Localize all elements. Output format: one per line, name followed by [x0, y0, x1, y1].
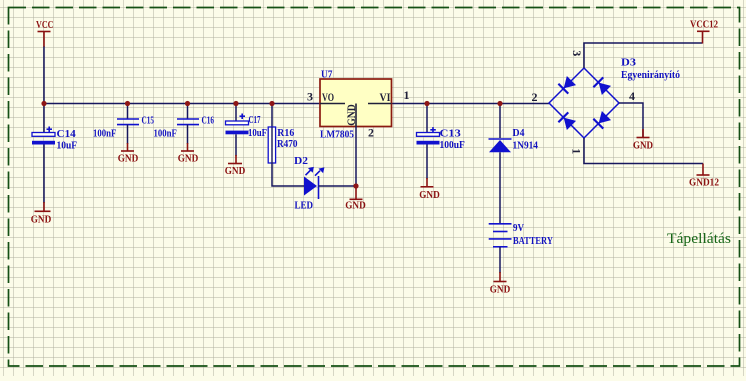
svg-text:C16: C16 — [202, 115, 215, 126]
svg-text:GND: GND — [31, 215, 52, 226]
junction C16 — [185, 101, 190, 106]
svg-text:2: 2 — [532, 90, 538, 104]
capacitor C15 100nF — [93, 104, 154, 145]
capacitor C16 100nF — [154, 104, 215, 145]
wire LED to GND junction — [319, 185, 357, 187]
svg-text:C13: C13 — [440, 128, 461, 139]
svg-text:1: 1 — [569, 148, 583, 154]
svg-text:Egyenirányító: Egyenirányító — [621, 70, 680, 81]
power port GND (C17) — [225, 155, 246, 177]
junction D4 — [497, 101, 502, 106]
capacitor C13 100uF — [417, 104, 465, 180]
svg-text:LED: LED — [295, 200, 314, 211]
power port GND (C13) — [419, 178, 440, 201]
svg-text:GND: GND — [178, 153, 199, 164]
power port GND (U7 pin 2) — [345, 187, 366, 212]
svg-text:VCC12: VCC12 — [690, 20, 718, 31]
power port GND (C14) — [31, 202, 52, 226]
capacitor C14 10uF — [32, 104, 77, 204]
svg-text:D4: D4 — [513, 128, 525, 139]
svg-text:10uF: 10uF — [57, 140, 78, 151]
junction R16 — [269, 101, 274, 106]
power port GND (bridge pin 4) — [633, 129, 653, 152]
svg-text:GND: GND — [118, 153, 139, 164]
junction VCC/C14 — [41, 101, 46, 106]
power port VCC12 — [690, 20, 718, 44]
svg-text:BATTERY: BATTERY — [513, 236, 554, 247]
junction C13 — [424, 101, 429, 106]
power port GND (C16) — [178, 143, 199, 164]
bridge diode bottom-right (4 to 1) — [593, 111, 611, 129]
svg-text:VI: VI — [380, 90, 391, 104]
junction C17 — [233, 101, 238, 106]
svg-text:GND: GND — [344, 104, 358, 126]
svg-text:1: 1 — [404, 88, 410, 102]
diode D4 1N914 — [489, 104, 539, 224]
wire U7 pin2 to LED junction — [355, 127, 357, 187]
wire VCC to bus — [43, 47, 45, 104]
battery 9V — [489, 223, 554, 273]
svg-text:100nF: 100nF — [93, 128, 116, 139]
svg-text:100uF: 100uF — [440, 140, 465, 151]
svg-text:10uF: 10uF — [248, 128, 267, 139]
svg-text:VO: VO — [322, 90, 334, 104]
wire R16 to LED — [272, 163, 305, 186]
svg-text:2: 2 — [368, 126, 374, 140]
svg-text:R16: R16 — [277, 128, 294, 139]
capacitor C17 10uF — [226, 104, 268, 157]
svg-text:GND: GND — [345, 201, 366, 212]
svg-text:VCC: VCC — [36, 20, 54, 31]
wire main bus — [44, 103, 320, 105]
wire U7 output to bridge — [392, 103, 550, 105]
LED D2 — [294, 156, 324, 211]
IC U7 LM7805 voltage regulator — [307, 69, 410, 140]
junction LED/U7 GND — [353, 183, 358, 188]
svg-text:100nF: 100nF — [154, 128, 177, 139]
svg-text:C14: C14 — [57, 129, 76, 140]
bridge diode top-right (4 to 3) — [593, 77, 611, 95]
svg-text:GND: GND — [419, 190, 440, 201]
power port GND (battery) — [490, 272, 511, 296]
resistor R16 R470 — [268, 104, 297, 164]
svg-text:1N914: 1N914 — [513, 140, 539, 151]
svg-text:D3: D3 — [621, 58, 636, 69]
bridge diode bottom-left (1 to 2) — [558, 112, 576, 130]
bridge diode top-left (3 to 2) — [558, 76, 576, 94]
svg-text:GND: GND — [225, 166, 246, 177]
bridge rectifier D3 Egyenirányító — [549, 58, 680, 139]
svg-text:3: 3 — [570, 50, 584, 56]
power port GND12 — [689, 164, 719, 189]
power port GND (C15) — [118, 143, 139, 164]
wire bridge bottom to GND12 — [584, 138, 703, 164]
junction C15 — [125, 101, 130, 106]
svg-text:C17: C17 — [249, 115, 261, 126]
wire bridge top to VCC12 — [584, 43, 703, 68]
svg-text:Tápellátás: Tápellátás — [667, 231, 731, 247]
svg-text:R470: R470 — [277, 139, 298, 150]
svg-text:3: 3 — [307, 90, 313, 104]
svg-text:U7: U7 — [321, 69, 333, 80]
svg-text:4: 4 — [629, 89, 635, 103]
svg-text:D2: D2 — [294, 156, 308, 167]
svg-text:C15: C15 — [142, 115, 155, 126]
power port VCC — [36, 20, 54, 47]
wire bridge pin4 to GND — [619, 103, 643, 138]
svg-text:LM7805: LM7805 — [320, 130, 354, 141]
svg-text:GND: GND — [490, 285, 511, 296]
svg-text:GND12: GND12 — [689, 177, 719, 188]
svg-text:GND: GND — [633, 141, 653, 152]
svg-text:9V: 9V — [513, 223, 525, 234]
